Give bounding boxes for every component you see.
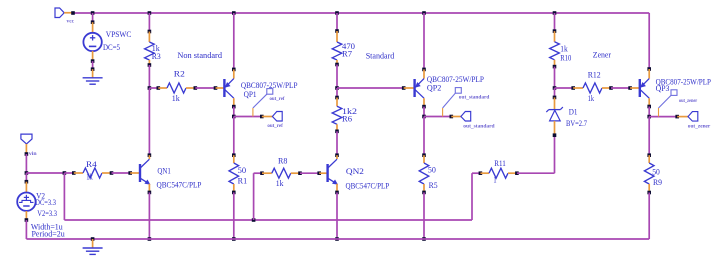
node R3 pin1 [148,30,152,34]
ground top [83,78,103,84]
wire R5 to gnd rail [423,192,425,239]
resistor R2 [167,83,186,93]
pin R6 top [336,98,338,107]
wire QP2 collector to node out_standard [423,107,425,117]
junction vcc-R3 [148,11,152,15]
junction node out_standard [422,115,426,119]
resistor R11 [489,168,508,178]
node V2 minus pin [25,218,29,222]
pin R11 right [508,172,517,174]
wire node C to D1 [554,88,556,97]
wire node B to R6 [336,88,338,98]
resistor R5 [419,163,429,184]
pin QP1 collector [233,98,235,106]
junction vcc-QP2 [422,11,426,15]
pin D1 anode [554,121,556,135]
pin V1 minus [92,51,94,61]
wire R12 to QP3 base [611,87,630,89]
junction vin riser [63,171,67,175]
probe marker out_ref [253,89,273,117]
wire node out_zener horizontal [649,116,677,118]
svg-text:BV=2.7: BV=2.7 [566,119,587,128]
pin R7 top [336,31,338,42]
junction node out_zener [647,115,651,119]
wire vcc to QP3 emitter [648,13,650,69]
wire QP1 collector to node out_ref [233,107,235,117]
node QP1 collector pin [232,105,236,109]
svg-text:50: 50 [428,166,436,175]
resistor R6 [332,106,342,124]
wire vin down [25,154,27,173]
probe marker out_zener [659,90,678,117]
wire R2 to QP1 base [195,87,215,89]
wire R11 to zener column [517,172,555,174]
svg-text:R10: R10 [560,53,571,62]
svg-text:vcc: vcc [67,19,75,25]
wire gnd rail [26,238,649,240]
pin QP2 emitter [423,69,425,78]
svg-text:R9: R9 [653,178,662,187]
pin R1 bottom [233,184,235,192]
pin R2 left [158,87,167,89]
svg-text:VPSWC: VPSWC [106,30,132,39]
node QN1 base pin [128,171,132,175]
svg-text:QP1: QP1 [244,90,257,99]
node R4 pin2 [110,171,114,175]
pin QP2 base [404,87,415,89]
wire node out_ref to R1 [233,117,235,156]
node QP2 base pin [402,86,406,90]
node QP3 emitter pin [647,67,651,71]
wire node out_ref horizontal [234,116,262,118]
svg-text:vin: vin [29,151,37,157]
wire node C to R12 [555,87,574,89]
node QN1 collector pin [148,153,152,157]
node R2 pin1 [157,86,161,90]
node R4 pin1 [72,171,76,175]
svg-text:DC=5: DC=5 [103,43,120,52]
node R8 pin1 [260,171,264,175]
node R1 pin2 [232,191,236,195]
junction vcc-port [71,11,75,15]
pin of port vin [25,144,27,154]
resistor R4 [83,168,102,178]
svg-text:out_zener: out_zener [688,123,711,129]
node R10 pin1 [553,29,557,33]
pin V2 plus [25,182,27,193]
pin R5 bottom [423,184,425,192]
svg-text:R1: R1 [238,177,248,186]
node QP2 emitter pin [422,68,426,72]
pin R12 right [602,87,611,89]
wire V1 to ground [92,61,94,69]
node QP2 collector pin [422,105,426,109]
port vin [21,134,32,144]
wire node B to QP2 base [337,87,404,89]
svg-text:Period=2u: Period=2u [32,229,65,238]
node R5 pin1 [422,153,426,157]
pin R10 top [554,31,556,42]
pin QN2 collector [336,155,338,159]
svg-text:1k: 1k [560,45,568,54]
node R9 pin1 [647,153,651,157]
node V1 minus pin [91,59,95,63]
svg-text:50: 50 [652,168,660,177]
wire V2 to gnd rail [25,220,27,239]
node V1 plus pin [91,20,95,24]
node R11 pin2 [515,171,519,175]
wire node A to QN1 collector [148,88,150,155]
svg-text:QBC547C/PLP: QBC547C/PLP [346,181,390,190]
pin QP3 collector [648,98,650,106]
node R11 pin1 [479,171,483,175]
svg-text:R6: R6 [342,114,352,123]
transistor QP3 [640,79,649,99]
wire vin rail to R8 [253,173,255,220]
wire R3 to node A [148,65,150,88]
svg-text:R3: R3 [152,52,161,61]
svg-text:1k: 1k [172,94,180,103]
svg-text:DC=3.3: DC=3.3 [35,198,56,207]
junction node out_ref [232,115,236,119]
node QN1 emitter pin [148,191,152,195]
pin R9 top [648,155,650,163]
pin QP1 emitter [233,69,235,78]
wire R6 to QN2 collector [336,131,338,155]
svg-text:out_ref: out_ref [267,123,283,129]
node QP1 emitter pin [232,68,236,72]
diode D1 zener [546,107,563,121]
pin R1 top [233,155,235,163]
pin port out_ref [262,116,273,118]
resistor R3 [145,42,155,60]
node out_ref port pin [260,115,264,119]
port out_zener [688,112,698,122]
wire to R11 left [472,172,480,174]
node R1 pin1 [232,153,236,157]
wire R8 to QN2 base [300,172,319,174]
port out_standard [461,112,471,122]
pin QN2 emitter [336,184,338,193]
pin ground bottom [92,239,94,248]
junction node B [335,86,339,90]
node QN2 base pin [317,171,321,175]
junction QN1-gnd rail [148,237,152,241]
wire R1 to gnd rail [233,192,235,239]
wire vcc to R3 [148,13,150,32]
node R2 pin2 [194,86,198,90]
wire vin node to V2 [25,173,27,182]
wire riser junction to R4 [64,172,73,174]
pin R8 right [291,172,300,174]
svg-text:R7: R7 [342,50,352,59]
pin QP1 base [216,87,225,89]
wire R8 corner [254,172,262,174]
wire QN2 emitter to gnd rail [336,192,338,239]
node ground pin top [91,67,95,71]
wire vin rail riser to R11 [471,173,473,220]
svg-text:QBC547C/PLP: QBC547C/PLP [157,181,202,190]
resistor R8 [272,168,291,178]
svg-text:50: 50 [238,166,247,175]
junction vcc-R10 [553,11,557,15]
junction R1-gnd rail [232,237,236,241]
node out_zener port pin [675,115,679,119]
junction QN2-gnd rail [335,237,339,241]
pin D1 cathode [554,97,556,109]
node R12 pin1 [571,86,575,90]
wire zener column riser [554,135,556,173]
transistor QN1 [140,159,150,184]
wire vin riser down [63,173,65,220]
pin R4 left [74,172,83,174]
svg-text:1: 1 [493,176,496,185]
pin of port vcc [64,12,73,14]
junction gnd rail-ground [91,237,95,241]
node D1 anode pin [553,133,557,137]
svg-text:1k: 1k [86,172,93,181]
svg-text:R12: R12 [588,71,601,80]
node QN2 emitter pin [335,191,339,195]
transistor QN2 [328,159,338,184]
pin R8 left [262,172,272,174]
port vcc [55,8,64,18]
svg-text:out_standard: out_standard [459,95,490,101]
wire QP3 collector to node out_zener [648,107,650,117]
wire R9 to gnd rail corner [648,193,650,240]
svg-text:R11: R11 [494,159,506,168]
svg-text:out_ref: out_ref [270,96,285,102]
wire vcc to V1 [92,13,94,22]
pin QN1 emitter [148,184,150,193]
svg-text:QP3: QP3 [656,84,670,93]
wire R7 to node B [336,65,338,89]
junction vcc-R7 [335,11,339,15]
wire node out_zener to R9 [648,117,650,156]
svg-text:V2=3.3: V2=3.3 [37,209,57,218]
node out_standard port pin [450,115,454,119]
node R6 pin2 [335,130,339,134]
svg-text:Zener: Zener [593,51,611,60]
wire R10 to node C [554,67,556,88]
resistor R7 [332,42,342,60]
wire vcc to QP1 emitter [233,13,235,69]
pin port out_standard [451,116,461,118]
pin ground top [92,69,94,78]
resistor R9 [644,163,654,184]
pin R5 top [423,155,425,163]
svg-text:QN1: QN1 [157,167,171,176]
node D1 cathode pin [553,96,557,100]
node QP1 base pin [214,86,218,90]
wire QN1 emitter to gnd rail [148,192,150,239]
svg-text:1k: 1k [276,179,284,188]
transistor QP1 [224,79,233,99]
pin R6 bottom [336,124,338,131]
voltage source V2 VPULSE [17,193,35,211]
svg-text:R4: R4 [86,160,97,169]
wire vin rail [64,219,472,221]
svg-text:R8: R8 [278,157,287,166]
resistor R12 [583,83,602,93]
pin R10 bottom [554,60,556,67]
node R3 pin2 [148,63,152,67]
wire vcc to R7 [336,13,338,31]
svg-text:D1: D1 [569,107,578,116]
node QN2 collector pin [335,153,339,157]
port out_ref [272,112,282,122]
wire vcc to QP2 emitter [423,13,425,69]
junction node C [553,86,557,90]
wire vcc rail [73,12,649,14]
wire node out_standard to R5 [423,117,425,156]
wire node A to R2 [149,87,158,89]
pin R2 right [186,87,195,89]
pin QN2 base [319,172,327,174]
resistor R10 [550,42,560,60]
junction vcc-V1 [91,11,95,15]
node QP3 base pin [628,86,632,90]
pin QP3 base [630,87,640,89]
pin R3 bottom [148,60,150,65]
node R10 pin2 [553,65,557,69]
svg-text:Standard: Standard [366,51,395,60]
pin R9 bottom [648,184,650,193]
node R5 pin2 [422,191,426,195]
pin R12 left [573,87,583,89]
node R6 pin1 [335,96,339,100]
node R8 pin2 [298,171,302,175]
svg-text:out_zener: out_zener [679,98,698,104]
node QP3 collector pin [647,105,651,109]
pin QP3 emitter [648,69,650,79]
node V2 plus pin [25,180,29,184]
svg-text:QN2: QN2 [346,167,364,176]
pin QN1 collector [148,155,150,159]
wire vcc to R10 [554,13,556,31]
probe marker out_standard [443,88,462,117]
node R12 pin2 [609,86,613,90]
pin port out_zener [677,116,688,118]
junction vin rail-R8 [252,218,256,222]
svg-text:Non standard: Non standard [177,51,222,60]
junction vin node [25,171,29,175]
resistor R1 [229,163,239,184]
pin V2 minus [25,211,27,220]
voltage source V1 VPSWC [83,33,101,51]
pin R3 top [148,32,150,43]
node R7 pin1 [335,29,339,33]
svg-text:QP2: QP2 [427,84,441,93]
junction R5-gnd rail [422,237,426,241]
svg-text:R5: R5 [429,181,438,190]
junction node A [148,86,152,90]
pin V1 plus [92,22,94,33]
pin R4 right [102,172,112,174]
pin R7 bottom [336,60,338,65]
node vin wire [25,152,29,156]
node R9 pin2 [647,191,651,195]
svg-text:out_standard: out_standard [463,123,494,129]
wire node out_standard horizontal [424,116,451,118]
node R7 pin2 [335,63,339,67]
pin R11 left [480,172,489,174]
wire vin node to riser [26,172,64,174]
junction vcc-QP1 [232,11,236,15]
wire R4 to QN1 base [112,172,131,174]
ground bottom [83,248,103,254]
svg-text:1k: 1k [588,94,594,103]
pin QP2 collector [423,98,425,106]
svg-text:R2: R2 [174,69,185,78]
pin QN1 base [130,172,139,174]
transistor QP2 [415,79,424,99]
